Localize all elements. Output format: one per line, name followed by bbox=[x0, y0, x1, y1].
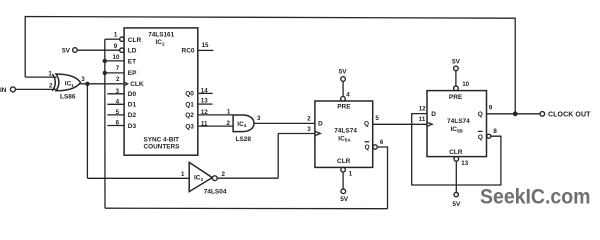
wire: IC4 output to FF1 D (pin 2) bbox=[254, 122, 315, 124]
node: junction at ET bbox=[103, 59, 107, 63]
wire: FF2 Q to CLOCK OUT bbox=[487, 113, 541, 115]
wire: D2 stub bbox=[107, 114, 124, 116]
svg-text:EP: EP bbox=[128, 70, 137, 77]
svg-text:1: 1 bbox=[181, 171, 185, 178]
node: junction at EP bbox=[103, 71, 107, 75]
wire: FF1 CLR to 5V bbox=[342, 172, 344, 189]
svg-text:6: 6 bbox=[380, 139, 384, 146]
wire: FF1 Q to FF2 CLK (pin 11) bbox=[373, 123, 427, 125]
node: 5V terminal above FF2 bbox=[454, 66, 459, 71]
pin bubble: counter LD (pin 9) bbox=[120, 48, 124, 52]
flip-flop U-IC5A 74LS74 box bbox=[315, 101, 373, 167]
svg-text:Q: Q bbox=[364, 121, 369, 128]
svg-text:Q: Q bbox=[365, 144, 370, 151]
wire: into FF1 CLK (pin 3) bbox=[278, 133, 315, 135]
svg-text:D1: D1 bbox=[128, 102, 137, 109]
svg-text:3: 3 bbox=[307, 126, 311, 133]
svg-text:CLOCK OUT: CLOCK OUT bbox=[548, 111, 591, 118]
svg-text:Q2: Q2 bbox=[185, 112, 194, 119]
svg-text:5V: 5V bbox=[452, 58, 461, 65]
svg-text:5V: 5V bbox=[62, 47, 71, 54]
svg-text:9: 9 bbox=[489, 105, 493, 112]
svg-text:4: 4 bbox=[346, 92, 350, 99]
svg-text:74LS161: 74LS161 bbox=[148, 32, 174, 39]
wire: EP stub bbox=[105, 72, 124, 74]
svg-text:IC5B: IC5B bbox=[451, 126, 464, 133]
FF2 CLK triangle bbox=[427, 122, 432, 126]
svg-text:D: D bbox=[318, 120, 323, 127]
node: IN input terminal bbox=[10, 87, 15, 92]
svg-text:Q: Q bbox=[478, 134, 483, 141]
pin bubble: inverter output bbox=[212, 176, 217, 181]
svg-text:2: 2 bbox=[227, 120, 231, 127]
svg-text:CLK: CLK bbox=[130, 81, 144, 88]
wire: FF1 Qbar feedback right/down bbox=[377, 147, 387, 209]
svg-text:74LS74: 74LS74 bbox=[334, 128, 357, 135]
XOR gate IC1 (LS86) bbox=[52, 74, 80, 91]
svg-text:8: 8 bbox=[493, 128, 497, 135]
svg-text:13: 13 bbox=[201, 98, 208, 105]
wire: 5V to LD pin bbox=[77, 49, 120, 51]
node: CLOCK OUT terminal bbox=[540, 112, 545, 117]
svg-text:11: 11 bbox=[419, 116, 426, 123]
svg-text:5V: 5V bbox=[339, 69, 348, 76]
counter 74LS161 IC2 box bbox=[124, 28, 198, 155]
wire: Q2 to IC4 input 1 (pin 12) bbox=[198, 114, 233, 116]
svg-text:9: 9 bbox=[114, 43, 118, 50]
svg-text:2: 2 bbox=[116, 76, 120, 83]
wire: ET stub bbox=[105, 60, 124, 62]
FF1 CLK triangle bbox=[315, 131, 320, 135]
pin bubble: counter CLR (pin 1) bbox=[120, 37, 124, 41]
node: junction of Q output and top rail bbox=[513, 111, 518, 116]
svg-text:IC5A: IC5A bbox=[338, 135, 351, 142]
svg-text:SeekIC.com: SeekIC.com bbox=[480, 185, 591, 208]
AND gate IC4 (LS28) bbox=[233, 115, 254, 132]
wire: Q0 stub (pin 14) bbox=[198, 92, 213, 94]
node: 5V terminal below FF1 bbox=[341, 189, 346, 194]
wire: D0 stub bbox=[107, 93, 124, 95]
svg-text:1: 1 bbox=[349, 170, 353, 177]
wire: bottom feedback rail bbox=[105, 207, 388, 210]
node: junction at XOR output bbox=[85, 82, 89, 86]
svg-text:5: 5 bbox=[375, 115, 379, 122]
svg-text:12: 12 bbox=[201, 109, 208, 116]
wire: IN terminal to XOR input 2 bbox=[15, 88, 56, 90]
overbar for Qbar (FF2) bbox=[478, 130, 483, 132]
overbar for Qbar (FF1) bbox=[365, 141, 370, 143]
inverter IC3 (74LS04) bbox=[189, 162, 212, 191]
svg-text:PRE: PRE bbox=[337, 103, 351, 110]
svg-text:IC4: IC4 bbox=[237, 121, 247, 128]
svg-text:2: 2 bbox=[49, 82, 53, 89]
svg-text:IC1: IC1 bbox=[65, 80, 75, 87]
wire: D3 stub bbox=[107, 125, 124, 127]
wire: horizontal into inverter input bbox=[87, 177, 189, 179]
wire: XOR input 1 horizontal stub bbox=[25, 76, 56, 78]
wire: inverter output horizontal bbox=[217, 177, 278, 179]
wire: CLR stub bbox=[105, 38, 120, 40]
svg-text:13: 13 bbox=[461, 160, 468, 167]
wire: FF2 CLR to 5V bbox=[455, 161, 457, 193]
svg-text:D0: D0 bbox=[128, 91, 137, 98]
wire: XOR output down to inverter input bbox=[86, 84, 88, 179]
svg-text:IC2: IC2 bbox=[156, 39, 166, 46]
svg-text:ET: ET bbox=[128, 59, 136, 66]
svg-text:7: 7 bbox=[116, 65, 120, 72]
svg-text:COUNTERS: COUNTERS bbox=[144, 144, 181, 151]
svg-text:Q0: Q0 bbox=[185, 91, 194, 98]
node: 5V terminal below FF2 bbox=[454, 192, 458, 196]
svg-text:CLR: CLR bbox=[128, 37, 142, 44]
pin bubble: FF1 CLR (pin 1) bbox=[341, 167, 346, 172]
svg-text:IC3: IC3 bbox=[194, 175, 204, 182]
wire: up to FF1 CLK bbox=[277, 134, 279, 179]
node: 5V terminal above FF1 bbox=[341, 77, 346, 82]
svg-text:1: 1 bbox=[227, 108, 231, 115]
svg-text:LD: LD bbox=[128, 48, 137, 55]
flip-flop U-IC5B 74LS74 box bbox=[427, 91, 487, 157]
svg-text:2: 2 bbox=[307, 115, 311, 122]
svg-text:SYNC 4-BIT: SYNC 4-BIT bbox=[144, 137, 180, 144]
svg-text:Q: Q bbox=[478, 111, 483, 118]
pin bubble: FF2 CLR (pin 13) bbox=[454, 157, 459, 162]
svg-text:2: 2 bbox=[222, 171, 226, 178]
svg-text:CLR: CLR bbox=[449, 149, 463, 156]
svg-text:1: 1 bbox=[114, 31, 118, 38]
svg-text:Q1: Q1 bbox=[185, 101, 194, 108]
svg-text:1: 1 bbox=[48, 70, 52, 77]
svg-text:74LS04: 74LS04 bbox=[204, 189, 227, 196]
wire: RC0 stub (pin 15) bbox=[198, 49, 214, 51]
svg-text:14: 14 bbox=[201, 88, 208, 95]
svg-text:10: 10 bbox=[113, 54, 120, 61]
svg-text:CLR: CLR bbox=[337, 158, 351, 165]
node: 5V supply terminal (counter) bbox=[73, 48, 78, 53]
svg-text:12: 12 bbox=[419, 105, 426, 112]
svg-text:IN: IN bbox=[0, 87, 7, 94]
svg-text:74LS74: 74LS74 bbox=[447, 118, 470, 125]
svg-text:5V: 5V bbox=[340, 196, 349, 203]
pin bubble: FF1 PRE (pin 4) bbox=[341, 96, 346, 101]
wire: top feedback rail from CLOCK OUT node to XOR input 1 bbox=[25, 17, 515, 114]
svg-text:3: 3 bbox=[81, 76, 85, 83]
svg-text:LS28: LS28 bbox=[236, 136, 252, 143]
svg-text:15: 15 bbox=[202, 42, 209, 49]
svg-text:LS86: LS86 bbox=[60, 93, 76, 100]
svg-text:RC0: RC0 bbox=[182, 48, 195, 55]
svg-text:5V: 5V bbox=[452, 201, 461, 208]
wire: 5V vertical bus tying CLR/LD/ET/EP and bottom feedback bbox=[104, 39, 106, 208]
wire: FF1 PRE to 5V bbox=[342, 81, 344, 96]
wire: Q3 to IC4 input 2 (pin 11) bbox=[198, 125, 233, 127]
svg-text:PRE: PRE bbox=[449, 94, 463, 101]
wire: XOR output to counter CLK bbox=[80, 83, 124, 85]
svg-text:D3: D3 bbox=[128, 123, 137, 130]
wire: FF2 PRE to 5V bbox=[455, 71, 457, 87]
svg-text:3: 3 bbox=[257, 115, 261, 122]
counter CLK triangle bbox=[124, 82, 128, 86]
wire: D1 stub bbox=[107, 103, 124, 105]
svg-text:10: 10 bbox=[462, 81, 469, 88]
pin bubble: FF1 Qbar (pin 6) bbox=[373, 145, 377, 149]
pin bubble: FF2 Qbar (pin 8) bbox=[487, 134, 491, 138]
svg-text:Q3: Q3 bbox=[185, 123, 194, 130]
wire: Q1 stub (pin 13) bbox=[198, 103, 213, 105]
svg-text:D2: D2 bbox=[128, 112, 137, 119]
wire: FF2 Qbar loop to FF2 D bbox=[412, 114, 501, 185]
pin bubble: FF2 PRE (pin 10) bbox=[454, 86, 459, 91]
svg-text:D: D bbox=[431, 111, 436, 118]
svg-text:11: 11 bbox=[201, 120, 208, 127]
